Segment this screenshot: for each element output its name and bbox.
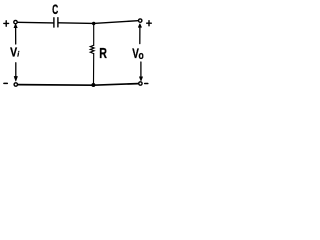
capacitor C bbox=[54, 18, 58, 27]
input terminal circle (bottom-left) bbox=[14, 83, 17, 86]
terminal - sign (bottom-right) bbox=[145, 83, 148, 85]
wire: bottom rail bbox=[18, 84, 138, 86]
output terminal circle (top-right) bbox=[139, 19, 142, 22]
output terminal circle (bottom-right) bbox=[139, 82, 142, 85]
label Vo bbox=[132, 45, 144, 62]
wire: Vo arrow upper segment with up arrowhead bbox=[138, 24, 141, 44]
wire: capacitor to top-right terminal (top rail) bbox=[59, 21, 138, 24]
wire: Vi arrow lower segment with down arrowhead bbox=[14, 63, 17, 81]
node: bottom junction of R with bottom rail bbox=[91, 83, 95, 87]
svg-text:V: V bbox=[10, 44, 17, 59]
wire: top-left terminal to capacitor bbox=[18, 21, 54, 24]
resistor R bbox=[90, 24, 94, 84]
svg-text:R: R bbox=[99, 44, 107, 61]
node: top junction of R with top rail bbox=[92, 22, 95, 25]
terminal + sign (top-right output) bbox=[147, 21, 152, 26]
label Vi bbox=[10, 44, 20, 59]
terminal + sign (top-left input) bbox=[4, 21, 9, 26]
label R bbox=[99, 44, 107, 61]
terminal - sign (bottom-left) bbox=[4, 82, 7, 84]
label C bbox=[52, 3, 59, 18]
svg-text:C: C bbox=[52, 3, 59, 18]
wire: Vo arrow lower segment with down arrowhead bbox=[139, 62, 142, 81]
wire: Vi arrow upper segment with up arrowhead bbox=[14, 24, 17, 44]
input terminal circle (top-left) bbox=[14, 20, 17, 23]
svg-text:o: o bbox=[139, 50, 144, 62]
